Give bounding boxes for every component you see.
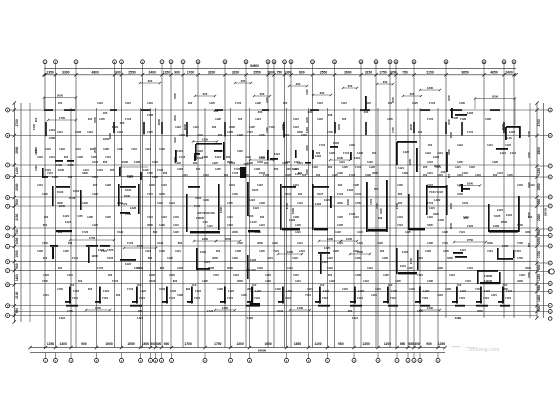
svg-text:2600: 2600: [57, 201, 63, 205]
svg-text:450: 450: [238, 117, 243, 121]
svg-text:1428: 1428: [255, 101, 261, 105]
svg-text:J: J: [7, 246, 8, 248]
svg-text:400Y300X1500: 400Y300X1500: [197, 211, 215, 215]
svg-text:1424: 1424: [457, 183, 463, 187]
svg-text:1424: 1424: [63, 214, 70, 218]
svg-text:1421: 1421: [457, 173, 463, 177]
svg-text:1800: 1800: [159, 192, 165, 196]
shear wall YAZ at x=283 lower corridor: [278, 287, 292, 304]
svg-text:300: 300: [196, 167, 201, 171]
svg-text:1423: 1423: [337, 241, 343, 245]
svg-text:1800: 1800: [502, 287, 508, 291]
svg-text:300: 300: [418, 130, 423, 134]
svg-text:1425: 1425: [377, 241, 383, 245]
svg-text:1423: 1423: [292, 256, 298, 260]
svg-text:YA23: YA23: [157, 241, 164, 245]
svg-text:7124: 7124: [297, 201, 303, 205]
svg-text:YA23: YA23: [92, 160, 99, 164]
svg-text:1424: 1424: [45, 147, 51, 151]
svg-text:YAZ: YAZ: [320, 284, 325, 287]
svg-text:1428: 1428: [369, 165, 375, 169]
svg-text:1424: 1424: [427, 160, 433, 164]
svg-text:1300: 1300: [236, 342, 244, 346]
svg-text:YA23: YA23: [107, 256, 114, 260]
svg-text:1421: 1421: [429, 206, 435, 210]
svg-text:3000: 3000: [449, 202, 453, 209]
svg-text:1421: 1421: [227, 215, 233, 219]
svg-text:1425: 1425: [63, 249, 69, 253]
svg-text:1423: 1423: [509, 130, 516, 134]
svg-text:1423: 1423: [467, 224, 474, 228]
zone7 fine label speckle along axes: [42, 130, 531, 313]
svg-text:1423: 1423: [317, 117, 323, 121]
svg-text:7124: 7124: [505, 296, 511, 300]
svg-text:1423: 1423: [517, 183, 523, 187]
svg-text:1200: 1200: [202, 237, 209, 241]
svg-text:2600: 2600: [147, 223, 153, 227]
svg-text:1700: 1700: [42, 279, 48, 283]
svg-text:300: 300: [328, 165, 333, 169]
svg-text:1422: 1422: [333, 141, 340, 145]
svg-text:1423: 1423: [329, 279, 335, 283]
svg-text:1423: 1423: [427, 215, 433, 219]
svg-text:1429: 1429: [402, 171, 408, 175]
svg-text:1803: 1803: [103, 137, 110, 141]
svg-text:1Y23: 1Y23: [429, 101, 436, 105]
svg-text:2550: 2550: [253, 70, 261, 74]
svg-text:YA23: YA23: [137, 266, 144, 270]
svg-text:2550: 2550: [128, 70, 136, 74]
svg-text:1428: 1428: [229, 125, 235, 129]
svg-text:1424: 1424: [301, 133, 307, 137]
svg-text:1100: 1100: [305, 89, 309, 95]
svg-text:300: 300: [218, 133, 223, 137]
svg-text:300: 300: [203, 92, 208, 96]
svg-text:7124: 7124: [390, 296, 396, 300]
svg-text:2600: 2600: [232, 230, 238, 234]
svg-text:1429: 1429: [159, 223, 165, 227]
svg-text:1Y23: 1Y23: [207, 309, 214, 313]
svg-text:7124: 7124: [169, 296, 175, 300]
svg-text:1900: 1900: [124, 194, 131, 198]
right axis bubbles column: [537, 108, 554, 320]
svg-text:300: 300: [108, 273, 113, 277]
svg-text:950: 950: [338, 342, 344, 346]
svg-text:1420M: 1420M: [484, 279, 492, 283]
svg-text:1425: 1425: [412, 101, 418, 105]
svg-text:1428: 1428: [77, 155, 83, 159]
svg-text:7124: 7124: [283, 133, 289, 137]
svg-text:1423: 1423: [367, 160, 373, 164]
beam bars along corridor axis y=305: [59, 303, 510, 320]
svg-text:1150: 1150: [34, 165, 38, 171]
svg-text:1424: 1424: [435, 165, 441, 169]
svg-text:1423: 1423: [228, 289, 234, 293]
svg-text:1424: 1424: [317, 101, 323, 105]
svg-text:300: 300: [380, 249, 385, 253]
shear wall YAZ at x=320 lower corridor: [315, 284, 329, 304]
svg-text:300: 300: [348, 84, 353, 88]
svg-text:7124: 7124: [72, 296, 78, 300]
svg-text:1425: 1425: [42, 192, 48, 196]
svg-text:YAZ: YAZ: [457, 284, 462, 287]
horizontal grid lines: [14, 110, 537, 316]
zone3 mid-upper wall clusters: [42, 96, 531, 180]
svg-text:1700: 1700: [355, 201, 361, 205]
svg-text:2600: 2600: [501, 220, 508, 224]
svg-text:1423: 1423: [197, 149, 203, 153]
svg-text:1423: 1423: [73, 289, 79, 293]
svg-text:1500: 1500: [173, 93, 177, 99]
svg-text:1428: 1428: [254, 167, 260, 171]
svg-text:300: 300: [93, 183, 98, 187]
svg-text:300: 300: [528, 215, 533, 219]
svg-text:300: 300: [316, 173, 321, 177]
svg-text:1428: 1428: [485, 117, 491, 121]
svg-text:1424: 1424: [97, 101, 103, 105]
svg-text:J: J: [550, 246, 551, 248]
svg-text:2600: 2600: [227, 266, 233, 270]
svg-text:1421: 1421: [177, 149, 183, 153]
interior boundary verticals: [30, 103, 530, 322]
svg-text:1Y23: 1Y23: [319, 143, 326, 147]
svg-text:1400: 1400: [15, 274, 19, 281]
svg-text:1421: 1421: [293, 273, 299, 277]
svg-text:1421: 1421: [117, 201, 123, 205]
svg-text:168: 168: [328, 113, 333, 117]
shear wall YAZ at x=137 lower corridor: [132, 284, 146, 304]
svg-text:300: 300: [414, 342, 420, 346]
svg-text:7124: 7124: [357, 296, 363, 300]
svg-text:1421: 1421: [215, 155, 222, 159]
svg-text:1423: 1423: [112, 125, 119, 129]
svg-text:300: 300: [58, 266, 63, 270]
svg-text:YAZ: YAZ: [137, 284, 142, 287]
svg-text:1421: 1421: [324, 198, 331, 202]
svg-text:YA25: YA25: [494, 214, 501, 218]
svg-text:1500: 1500: [142, 342, 150, 346]
svg-text:1Y23: 1Y23: [127, 241, 134, 245]
svg-text:1400: 1400: [502, 244, 509, 248]
svg-text:300: 300: [383, 80, 388, 84]
svg-text:1800: 1800: [467, 182, 474, 186]
svg-text:7F28: 7F28: [69, 196, 76, 200]
svg-text:900: 900: [15, 263, 19, 269]
svg-text:1950: 1950: [537, 183, 541, 190]
svg-text:1Y23: 1Y23: [234, 167, 241, 171]
svg-text:1424: 1424: [293, 125, 299, 129]
svg-text:1750: 1750: [89, 236, 96, 240]
svg-text:5400: 5400: [346, 198, 350, 205]
svg-text:1200: 1200: [346, 237, 353, 241]
svg-text:1428: 1428: [353, 183, 359, 187]
svg-text:2600: 2600: [157, 118, 161, 125]
svg-text:1421: 1421: [460, 248, 467, 252]
svg-text:1550: 1550: [127, 342, 135, 346]
shear wall YAZ at x=225 lower corridor: [220, 287, 234, 304]
svg-text:1421: 1421: [37, 183, 43, 187]
svg-text:239B: 239B: [455, 316, 461, 320]
svg-text:1423: 1423: [433, 155, 440, 159]
svg-text:1428: 1428: [87, 215, 93, 219]
svg-text:1428: 1428: [177, 293, 183, 297]
wall bars along upper main axis: [44, 109, 505, 137]
svg-text:1429M: 1429M: [484, 274, 492, 278]
zone9 scattered small dimension lines: [47, 79, 441, 311]
svg-text:1424: 1424: [249, 198, 256, 202]
svg-text:1428: 1428: [227, 130, 233, 134]
svg-text:850: 850: [15, 199, 19, 205]
svg-text:1Y23: 1Y23: [179, 155, 186, 159]
svg-text:7124: 7124: [147, 192, 153, 196]
svg-text:300: 300: [220, 149, 225, 153]
svg-text:7124: 7124: [465, 279, 471, 283]
svg-text:1421: 1421: [287, 266, 293, 270]
svg-text:1425: 1425: [383, 273, 389, 277]
svg-text:7124: 7124: [247, 130, 253, 134]
svg-text:1421: 1421: [295, 230, 301, 234]
svg-text:1425: 1425: [105, 215, 111, 219]
svg-text:1400: 1400: [537, 295, 541, 302]
svg-text:800: 800: [348, 309, 353, 313]
svg-text:850: 850: [537, 199, 541, 205]
svg-text:2600: 2600: [477, 309, 483, 313]
svg-text:300: 300: [342, 117, 347, 121]
svg-text:900: 900: [447, 173, 451, 178]
svg-text:1421: 1421: [293, 183, 299, 187]
svg-text:1423: 1423: [159, 249, 165, 253]
svg-text:1428: 1428: [215, 117, 221, 121]
svg-text:1-100: 1-100: [249, 220, 257, 224]
svg-text:1428: 1428: [130, 206, 137, 210]
svg-text:1429: 1429: [257, 266, 263, 270]
svg-text:2700: 2700: [285, 202, 289, 209]
svg-text:1426: 1426: [337, 171, 343, 175]
svg-text:305: 305: [374, 187, 379, 191]
svg-text:1425: 1425: [241, 293, 247, 297]
svg-text:1421: 1421: [83, 168, 89, 172]
svg-text:450: 450: [283, 101, 288, 105]
shear wall YAZ at x=388 lower corridor: [383, 284, 397, 304]
svg-text:YAZ: YAZ: [252, 284, 257, 287]
svg-text:2400: 2400: [149, 70, 157, 74]
svg-text:1421: 1421: [497, 208, 504, 212]
svg-text:1423: 1423: [37, 155, 43, 159]
svg-text:7124: 7124: [254, 296, 260, 300]
svg-text:YA23: YA23: [462, 201, 469, 205]
svg-text:7124: 7124: [417, 273, 423, 277]
svg-text:1700: 1700: [327, 130, 333, 134]
svg-text:1600: 1600: [58, 168, 65, 172]
svg-text:1421: 1421: [267, 256, 273, 260]
svg-text:300: 300: [298, 192, 303, 196]
svg-text:750: 750: [15, 229, 19, 235]
svg-text:1250: 1250: [47, 342, 55, 346]
svg-text:2150: 2150: [34, 149, 38, 155]
svg-text:1428: 1428: [357, 151, 363, 155]
svg-text:1421: 1421: [259, 155, 265, 159]
svg-text:1250: 1250: [537, 274, 541, 281]
svg-text:3000: 3000: [57, 94, 64, 98]
svg-text:YA23: YA23: [195, 196, 202, 200]
svg-text:1421: 1421: [204, 260, 211, 264]
svg-text:7124: 7124: [161, 183, 167, 187]
svg-text:1500: 1500: [379, 208, 383, 214]
svg-text:28000: 28000: [544, 207, 548, 216]
svg-text:YA23: YA23: [117, 230, 124, 234]
bottom dimension band with bay widths and overall 54900: [28, 342, 446, 353]
svg-text:1423: 1423: [335, 230, 341, 234]
left dimension band (rotated numbers): [13, 101, 21, 323]
svg-text:YAZ: YAZ: [503, 284, 508, 287]
svg-text:2400: 2400: [305, 117, 309, 123]
svg-text:1423: 1423: [97, 168, 103, 172]
svg-text:1426: 1426: [457, 192, 463, 196]
svg-text:1428: 1428: [247, 161, 253, 165]
svg-text:1424: 1424: [233, 273, 239, 277]
svg-text:1425: 1425: [237, 149, 243, 153]
svg-text:7128: 7128: [75, 130, 82, 134]
svg-text:1424: 1424: [92, 175, 98, 179]
svg-text:1423: 1423: [467, 111, 474, 115]
svg-text:1800: 1800: [517, 279, 523, 283]
svg-text:1424: 1424: [397, 215, 403, 219]
svg-text:800: 800: [43, 223, 48, 227]
svg-text:YAZ: YAZ: [192, 284, 197, 287]
svg-text:1423: 1423: [103, 289, 109, 293]
svg-text:300: 300: [316, 151, 321, 155]
svg-text:1428: 1428: [492, 160, 498, 164]
svg-text:1423: 1423: [312, 165, 318, 169]
svg-text:1425: 1425: [457, 160, 463, 164]
shear wall YAZ at x=192 lower corridor: [187, 284, 201, 304]
svg-text:54900: 54900: [258, 349, 267, 353]
right dimension band (rotated numbers): [535, 101, 547, 319]
top dimension band with bay widths and overall 54900: [42, 64, 517, 77]
svg-text:1-30: 1-30: [202, 220, 208, 224]
zone1 top dimension callouts: [43, 84, 516, 125]
svg-text:7124: 7124: [422, 296, 428, 300]
svg-text:1424: 1424: [506, 213, 513, 217]
svg-text:3300: 3300: [62, 70, 70, 74]
svg-text:1800: 1800: [427, 223, 433, 227]
svg-text:9800: 9800: [92, 254, 99, 258]
svg-text:2700: 2700: [15, 119, 19, 126]
svg-text:300: 300: [249, 214, 254, 218]
svg-text:1429: 1429: [272, 241, 278, 245]
svg-text:1424: 1424: [449, 273, 455, 277]
svg-text:300: 300: [64, 155, 69, 159]
svg-text:1800: 1800: [487, 241, 493, 245]
svg-text:1421: 1421: [125, 101, 131, 105]
svg-text:800: 800: [186, 287, 191, 291]
svg-text:1421: 1421: [354, 156, 361, 160]
svg-text:300: 300: [110, 168, 115, 172]
svg-text:1425: 1425: [324, 246, 331, 250]
svg-text:7124: 7124: [459, 296, 465, 300]
svg-text:1425: 1425: [295, 223, 301, 227]
svg-text:2600: 2600: [372, 171, 378, 175]
svg-text:1425: 1425: [227, 201, 233, 205]
svg-text:1428: 1428: [349, 143, 355, 147]
svg-text:1424: 1424: [357, 241, 363, 245]
svg-text:900: 900: [527, 242, 531, 247]
svg-text:300: 300: [148, 79, 153, 83]
svg-text:7128: 7128: [460, 117, 467, 121]
svg-text:1500: 1500: [527, 272, 531, 278]
svg-text:1423: 1423: [365, 101, 371, 105]
svg-text:Y2Z1: Y2Z1: [369, 198, 373, 205]
svg-text:1250: 1250: [438, 342, 446, 346]
faint watermark: [452, 346, 500, 353]
svg-text:900: 900: [115, 70, 121, 74]
svg-text:1428: 1428: [355, 273, 361, 277]
svg-text:7124: 7124: [285, 296, 291, 300]
svg-text:1428: 1428: [459, 101, 465, 105]
svg-text:1421: 1421: [455, 165, 461, 169]
svg-text:1Y23: 1Y23: [82, 230, 89, 234]
svg-text:3150: 3150: [365, 70, 373, 74]
svg-text:950: 950: [400, 342, 406, 346]
svg-text:1424: 1424: [145, 249, 151, 253]
svg-text:YAZ: YAZ: [70, 284, 75, 287]
svg-text:1Y23: 1Y23: [349, 173, 356, 177]
svg-text:1700: 1700: [517, 256, 523, 260]
svg-text:1100: 1100: [314, 342, 321, 346]
svg-text:450: 450: [58, 101, 63, 105]
svg-text:1422: 1422: [403, 150, 410, 154]
svg-text:1423: 1423: [347, 188, 354, 192]
svg-text:1424: 1424: [367, 266, 373, 270]
svg-text:1428: 1428: [425, 249, 431, 253]
svg-text:YA21: YA21: [73, 189, 80, 193]
svg-text:1423: 1423: [484, 289, 490, 293]
svg-text:1428: 1428: [445, 287, 451, 291]
svg-text:550: 550: [408, 342, 414, 346]
zone11 extra speckle rows: [37, 125, 535, 297]
svg-text:1424: 1424: [59, 316, 65, 320]
svg-text:1300: 1300: [427, 86, 434, 90]
svg-text:300: 300: [308, 110, 313, 114]
svg-text:1426: 1426: [200, 250, 207, 254]
svg-text:850: 850: [537, 264, 541, 270]
svg-text:2400: 2400: [281, 123, 285, 130]
svg-text:1424: 1424: [169, 201, 175, 205]
svg-text:900: 900: [34, 117, 38, 122]
svg-text:750: 750: [276, 70, 282, 74]
svg-text:1900: 1900: [105, 342, 113, 346]
svg-text:2150: 2150: [15, 213, 19, 220]
svg-text:2700: 2700: [375, 203, 379, 209]
svg-text:1421: 1421: [65, 220, 72, 224]
svg-text:1423: 1423: [173, 215, 179, 219]
svg-text:1430: 1430: [297, 306, 304, 310]
svg-text:YA23: YA23: [149, 279, 156, 283]
svg-text:1400: 1400: [427, 306, 434, 310]
shear wall YAZ at x=355 lower corridor: [350, 287, 364, 304]
svg-text:1426: 1426: [177, 266, 183, 270]
svg-text:1428: 1428: [259, 201, 265, 205]
svg-text:1700: 1700: [185, 342, 193, 346]
svg-text:1421: 1421: [197, 133, 203, 137]
svg-text:300: 300: [156, 342, 162, 346]
svg-text:1428: 1428: [382, 256, 388, 260]
svg-text:1425: 1425: [99, 117, 105, 121]
svg-text:1424: 1424: [457, 143, 463, 147]
svg-text:1423: 1423: [391, 289, 397, 293]
svg-text:300: 300: [260, 215, 265, 219]
svg-text:1700: 1700: [42, 241, 48, 245]
